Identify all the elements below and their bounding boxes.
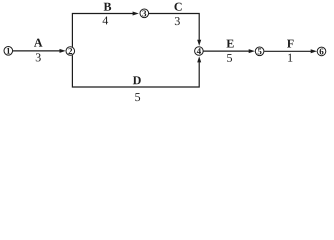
wire D: node 2 down, right, up to node 4 [72,55,199,87]
node 3 digit [142,10,146,16]
value 5 under E [227,54,232,62]
value 4 under B [103,17,109,25]
node 3 circle [140,9,149,18]
wire F: node 5 to node 6 [264,50,311,52]
wire A: node 1 to node 2 [13,50,60,52]
wire B: node 2 up and right to node 3 [72,14,133,47]
arrowhead C into node 4 (down) [197,40,201,46]
label F [287,40,294,48]
wire E: node 4 to node 5 [203,50,249,52]
wire C: node 3 right then down to node 4 [149,14,199,41]
node 6 digit [320,48,324,54]
node 1 circle [4,47,13,56]
label E [227,40,234,48]
arrowhead B into node 3 [133,12,139,16]
value 1 under F [288,54,292,62]
node 2 digit [68,48,72,54]
arrowhead F into node 6 [311,49,317,53]
arrowhead D into node 4 (up) [197,56,201,62]
value 3 under C [175,17,180,25]
label C [174,3,181,11]
label B [104,3,111,11]
node 5 circle [255,47,264,56]
value 3 under A [36,53,41,61]
node 4 circle [195,47,204,56]
node 5 digit [258,48,262,54]
node 6 circle [317,47,326,56]
node 4 digit [197,48,201,54]
node 2 circle [66,47,75,56]
value 5 under D [135,93,140,101]
arrowhead A into node 2 [60,49,66,53]
label A [34,39,42,47]
arrowhead E into node 5 [249,49,255,53]
label D [133,76,141,84]
node 1 digit [7,48,10,54]
